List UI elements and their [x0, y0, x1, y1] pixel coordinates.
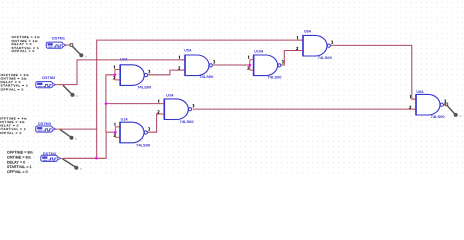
svg-text:DSTM2: DSTM2 [42, 76, 55, 80]
svg-text:U10A: U10A [254, 50, 264, 54]
svg-text:74LS00: 74LS00 [136, 143, 151, 148]
svg-text:DELAY = 0: DELAY = 0 [7, 160, 25, 164]
svg-text:OPPVAL = 0: OPPVAL = 0 [0, 131, 22, 135]
svg-text:U6A: U6A [304, 30, 312, 34]
svg-text:74LS00: 74LS00 [137, 84, 152, 89]
svg-text:ONTIME = 8m: ONTIME = 8m [7, 155, 31, 159]
svg-text:DSTM4: DSTM4 [43, 152, 57, 156]
svg-text:DSTM1: DSTM1 [52, 36, 65, 40]
svg-text:DSTM3: DSTM3 [38, 122, 51, 126]
svg-text:OFFTIME = 8m: OFFTIME = 8m [7, 150, 33, 154]
svg-text:OPPVAL = 0: OPPVAL = 0 [12, 49, 35, 53]
svg-text:U8A: U8A [416, 90, 424, 94]
svg-text:74LS00: 74LS00 [199, 74, 214, 79]
svg-text:U3A: U3A [166, 93, 174, 97]
svg-text:74LS00: 74LS00 [268, 74, 283, 79]
svg-text:U1A: U1A [121, 117, 129, 121]
svg-text:STARTVAL = 1: STARTVAL = 1 [7, 165, 32, 169]
svg-text:U5A: U5A [184, 48, 192, 52]
svg-text:74LS00: 74LS00 [318, 55, 333, 60]
svg-text:OPPVAL = 0: OPPVAL = 0 [1, 87, 24, 91]
svg-text:U2A: U2A [120, 58, 128, 62]
svg-text:OPPVAL = 0: OPPVAL = 0 [7, 170, 28, 174]
svg-text:74LS00: 74LS00 [431, 114, 446, 119]
svg-text:74LS00: 74LS00 [180, 119, 195, 124]
